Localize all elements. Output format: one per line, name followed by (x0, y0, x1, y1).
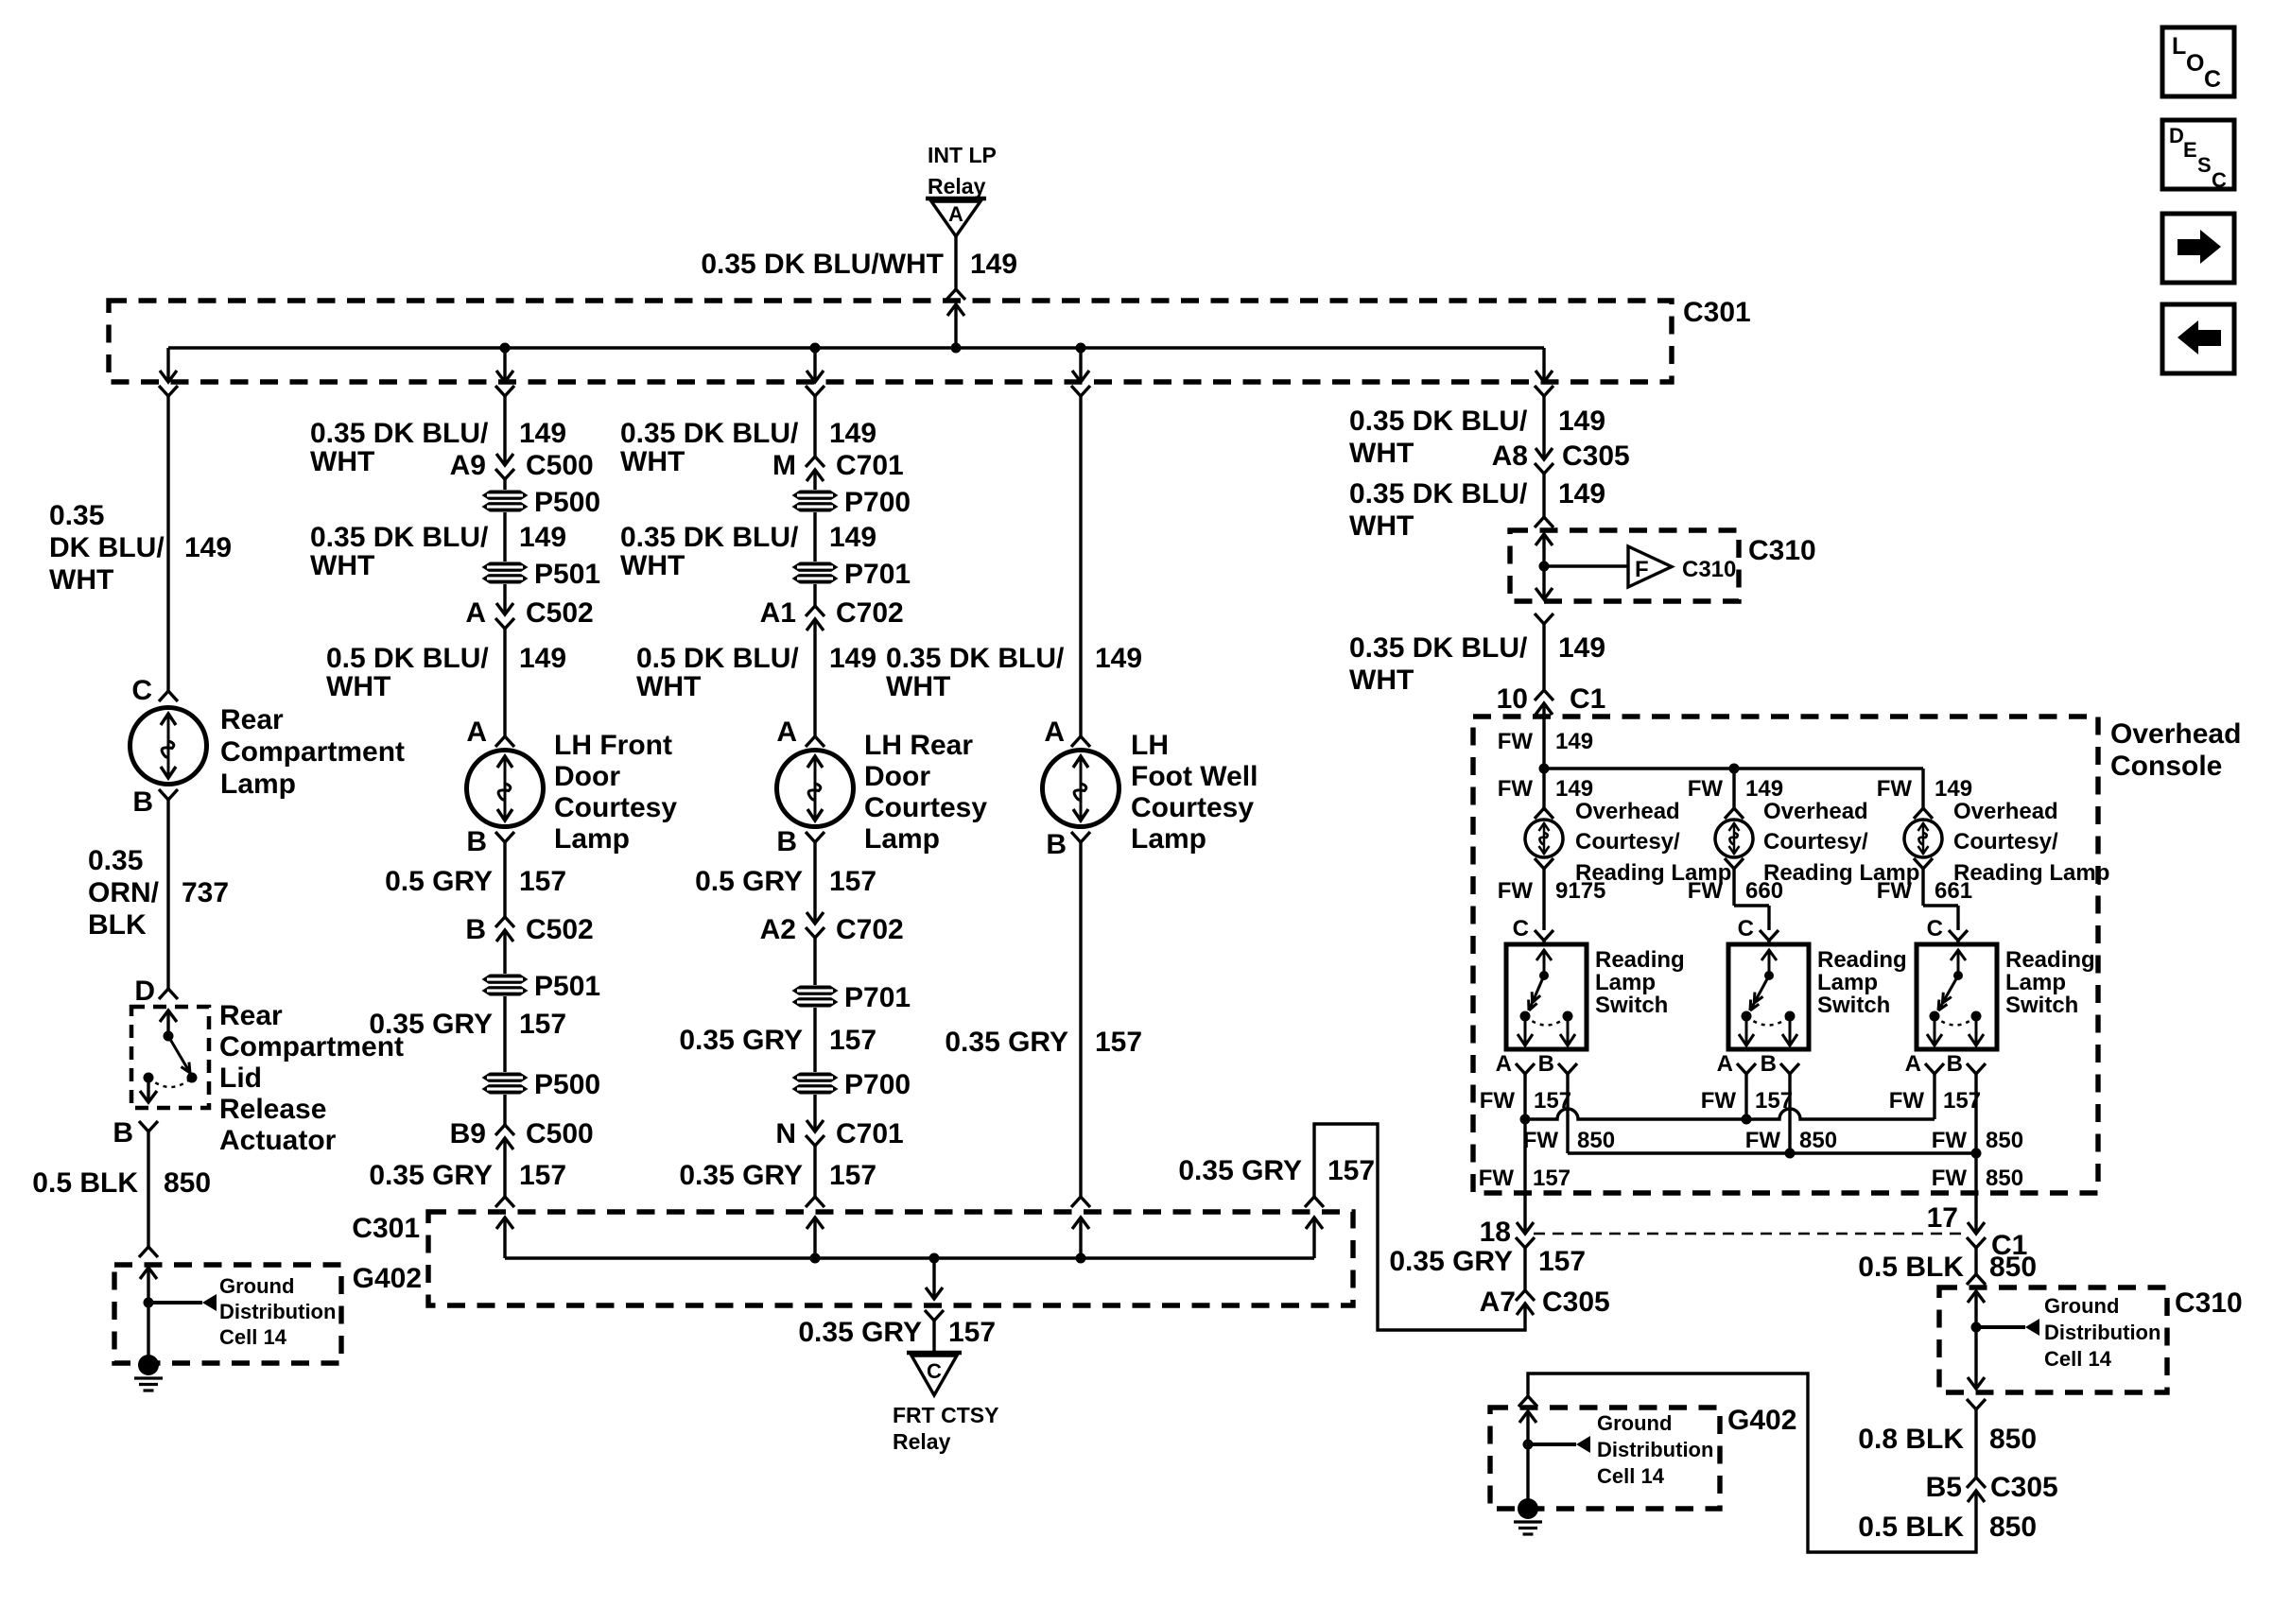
svg-text:Door: Door (864, 761, 930, 792)
svg-text:0.35 DK BLU/: 0.35 DK BLU/ (886, 643, 1065, 674)
svg-text:Lamp: Lamp (864, 823, 940, 855)
svg-text:0.35 GRY: 0.35 GRY (369, 1160, 493, 1191)
svg-text:149: 149 (970, 249, 1017, 280)
svg-text:B: B (113, 1117, 133, 1149)
svg-text:157: 157 (948, 1317, 996, 1348)
svg-text:M: M (772, 450, 796, 481)
svg-text:Reading: Reading (1595, 947, 1685, 973)
svg-text:O: O (2186, 50, 2204, 77)
svg-text:C305: C305 (1990, 1472, 2058, 1503)
svg-text:Overhead: Overhead (1763, 799, 1868, 824)
svg-text:Lamp: Lamp (220, 769, 296, 800)
svg-text:FW: FW (1701, 1088, 1737, 1114)
svg-text:A7: A7 (1480, 1287, 1516, 1318)
svg-text:Switch: Switch (1595, 993, 1668, 1018)
svg-text:0.35 GRY: 0.35 GRY (679, 1160, 803, 1191)
svg-text:Lamp: Lamp (554, 823, 630, 855)
svg-text:850: 850 (1577, 1128, 1615, 1153)
svg-text:B: B (1046, 829, 1067, 860)
svg-text:P500: P500 (534, 487, 600, 518)
svg-text:0.35 GRY: 0.35 GRY (798, 1317, 922, 1348)
svg-text:0.5 BLK: 0.5 BLK (1858, 1512, 1964, 1543)
svg-text:0.35 DK BLU/: 0.35 DK BLU/ (620, 418, 799, 449)
svg-text:FW: FW (1932, 1128, 1968, 1153)
svg-text:A8: A8 (1492, 441, 1528, 472)
svg-text:P501: P501 (534, 971, 600, 1002)
svg-text:Cell 14: Cell 14 (1597, 1464, 1665, 1488)
svg-text:0.35 DK BLU/: 0.35 DK BLU/ (620, 522, 799, 553)
svg-text:G402: G402 (1727, 1405, 1796, 1436)
svg-text:BLK: BLK (88, 909, 147, 941)
svg-text:9175: 9175 (1555, 878, 1605, 904)
svg-text:149: 149 (1745, 776, 1783, 802)
svg-text:C301: C301 (352, 1213, 420, 1244)
svg-text:LH Front: LH Front (554, 730, 672, 761)
svg-text:C301: C301 (1683, 297, 1751, 328)
svg-text:FW: FW (1877, 776, 1913, 802)
svg-text:Courtesy: Courtesy (554, 792, 677, 823)
svg-text:A1: A1 (760, 597, 796, 629)
svg-text:C: C (1738, 916, 1754, 942)
svg-text:149: 149 (829, 522, 876, 553)
svg-text:0.35 GRY: 0.35 GRY (1389, 1246, 1513, 1277)
svg-text:P700: P700 (844, 487, 911, 518)
svg-text:Release: Release (219, 1094, 326, 1125)
svg-text:Relay: Relay (928, 174, 986, 199)
svg-text:A9: A9 (450, 450, 486, 481)
svg-text:Reading: Reading (2005, 947, 2095, 973)
svg-text:0.35: 0.35 (88, 845, 143, 876)
svg-text:C310: C310 (1748, 535, 1816, 566)
svg-text:Ground: Ground (1597, 1411, 1672, 1435)
svg-text:A: A (1496, 1051, 1512, 1077)
svg-text:D: D (2169, 124, 2184, 147)
svg-text:FW: FW (1523, 1128, 1559, 1153)
svg-text:Lid: Lid (219, 1063, 262, 1094)
svg-text:0.35 GRY: 0.35 GRY (945, 1027, 1068, 1058)
svg-text:149: 149 (829, 418, 876, 449)
svg-text:C305: C305 (1562, 441, 1630, 472)
svg-text:B: B (466, 826, 487, 857)
svg-text:A: A (465, 597, 486, 629)
svg-text:0.35 DK BLU/: 0.35 DK BLU/ (310, 522, 489, 553)
svg-text:149: 149 (1095, 643, 1142, 674)
svg-text:Rear: Rear (220, 704, 284, 735)
svg-text:FW: FW (1480, 1088, 1516, 1114)
svg-text:Compartment: Compartment (220, 736, 405, 768)
svg-text:P701: P701 (844, 982, 911, 1013)
svg-text:P700: P700 (844, 1069, 911, 1100)
svg-text:149: 149 (1935, 776, 1972, 802)
svg-text:A: A (1044, 717, 1065, 748)
svg-text:C502: C502 (526, 597, 594, 629)
svg-text:WHT: WHT (620, 550, 685, 581)
svg-text:C310: C310 (1682, 557, 1736, 582)
svg-text:Lamp: Lamp (1131, 823, 1206, 855)
svg-text:P501: P501 (534, 559, 600, 590)
svg-text:L: L (2172, 33, 2186, 60)
svg-text:Courtesy/: Courtesy/ (1763, 829, 1868, 855)
svg-text:18: 18 (1480, 1217, 1511, 1248)
svg-text:149: 149 (519, 522, 566, 553)
svg-text:737: 737 (182, 877, 229, 908)
svg-text:149: 149 (1555, 776, 1593, 802)
svg-text:149: 149 (829, 643, 876, 674)
svg-text:A2: A2 (760, 914, 796, 945)
svg-text:C305: C305 (1542, 1287, 1610, 1318)
svg-text:149: 149 (1555, 729, 1593, 754)
svg-text:Distribution: Distribution (1597, 1438, 1713, 1461)
svg-text:LH: LH (1131, 730, 1169, 761)
svg-text:Cell 14: Cell 14 (219, 1325, 287, 1349)
svg-text:0.35 DK BLU/: 0.35 DK BLU/ (1349, 478, 1528, 510)
svg-text:661: 661 (1935, 878, 1972, 904)
svg-text:WHT: WHT (636, 671, 701, 702)
svg-text:Distribution: Distribution (2044, 1321, 2160, 1344)
svg-text:WHT: WHT (1349, 665, 1414, 696)
svg-text:C310: C310 (2175, 1287, 2243, 1319)
svg-text:WHT: WHT (1349, 438, 1414, 469)
svg-text:0.35 GRY: 0.35 GRY (679, 1025, 803, 1056)
svg-text:Courtesy: Courtesy (1131, 792, 1254, 823)
svg-text:DK BLU/: DK BLU/ (49, 532, 165, 563)
svg-text:FW: FW (1498, 878, 1534, 904)
svg-text:C702: C702 (836, 914, 904, 945)
svg-text:D: D (134, 976, 155, 1007)
svg-text:WHT: WHT (310, 446, 374, 477)
svg-text:S: S (2197, 153, 2212, 177)
svg-text:C: C (2212, 168, 2227, 192)
svg-text:Ground: Ground (2044, 1294, 2119, 1318)
svg-text:FW: FW (1498, 776, 1534, 802)
svg-text:LH Rear: LH Rear (864, 730, 973, 761)
svg-text:Overhead: Overhead (1575, 799, 1680, 824)
svg-text:157: 157 (519, 1009, 566, 1040)
svg-text:C702: C702 (836, 597, 904, 629)
svg-text:850: 850 (164, 1167, 211, 1199)
svg-text:A: A (948, 202, 963, 226)
svg-text:660: 660 (1745, 878, 1783, 904)
svg-text:WHT: WHT (886, 671, 950, 702)
svg-text:Overhead: Overhead (1953, 799, 2058, 824)
svg-text:FW: FW (1688, 776, 1724, 802)
svg-text:157: 157 (1327, 1155, 1375, 1186)
svg-text:157: 157 (829, 1025, 876, 1056)
svg-text:Lamp: Lamp (1595, 970, 1656, 995)
svg-text:C: C (927, 1359, 942, 1383)
svg-text:Cell 14: Cell 14 (2044, 1347, 2112, 1371)
svg-text:Switch: Switch (1817, 993, 1890, 1018)
svg-text:0.5 BLK: 0.5 BLK (1858, 1252, 1964, 1283)
svg-text:E: E (2183, 138, 2197, 162)
svg-text:B: B (132, 786, 153, 818)
svg-text:850: 850 (1989, 1424, 2037, 1455)
svg-text:Rear: Rear (219, 1000, 283, 1031)
svg-text:Console: Console (2110, 751, 2222, 782)
svg-text:B: B (1947, 1051, 1963, 1077)
svg-text:INT LP: INT LP (928, 143, 997, 167)
svg-text:0.5 GRY: 0.5 GRY (695, 866, 803, 897)
svg-text:C701: C701 (836, 1118, 904, 1149)
svg-text:0.35: 0.35 (49, 500, 104, 531)
svg-text:FRT CTSY: FRT CTSY (893, 1403, 998, 1427)
svg-text:Reading Lamp: Reading Lamp (1953, 860, 2109, 886)
svg-text:149: 149 (519, 643, 566, 674)
svg-text:Lamp: Lamp (1817, 970, 1878, 995)
svg-text:Lamp: Lamp (2005, 970, 2066, 995)
svg-text:0.5 DK BLU/: 0.5 DK BLU/ (326, 643, 489, 674)
svg-text:A: A (776, 717, 797, 748)
svg-text:0.35 GRY: 0.35 GRY (369, 1009, 493, 1040)
svg-text:149: 149 (519, 418, 566, 449)
svg-text:Relay: Relay (893, 1429, 951, 1454)
svg-text:B5: B5 (1926, 1472, 1962, 1503)
svg-text:17: 17 (1927, 1202, 1958, 1234)
svg-text:B: B (465, 914, 486, 945)
svg-text:Courtesy: Courtesy (864, 792, 987, 823)
svg-text:C500: C500 (526, 1118, 594, 1149)
svg-text:Overhead: Overhead (2110, 718, 2241, 750)
svg-text:0.5 GRY: 0.5 GRY (385, 866, 493, 897)
svg-text:0.35 GRY: 0.35 GRY (1178, 1155, 1302, 1186)
svg-text:ORN/: ORN/ (88, 877, 160, 908)
svg-text:B9: B9 (450, 1118, 486, 1149)
svg-text:850: 850 (1989, 1252, 2037, 1283)
svg-text:0.5 DK BLU/: 0.5 DK BLU/ (636, 643, 799, 674)
svg-text:Distribution: Distribution (219, 1300, 336, 1323)
svg-text:157: 157 (1538, 1246, 1586, 1277)
svg-text:WHT: WHT (326, 671, 390, 702)
svg-text:P500: P500 (534, 1069, 600, 1100)
svg-text:B: B (1538, 1051, 1554, 1077)
svg-text:157: 157 (1095, 1027, 1142, 1058)
svg-text:P701: P701 (844, 559, 911, 590)
svg-text:C: C (1513, 916, 1529, 942)
svg-text:157: 157 (1533, 1166, 1570, 1191)
svg-text:FW: FW (1498, 729, 1534, 754)
svg-text:157: 157 (829, 1160, 876, 1191)
svg-text:157: 157 (829, 866, 876, 897)
svg-text:A: A (466, 717, 487, 748)
svg-text:0.35 DK BLU/: 0.35 DK BLU/ (1349, 632, 1528, 664)
svg-text:WHT: WHT (49, 564, 113, 596)
svg-text:Courtesy/: Courtesy/ (1575, 829, 1680, 855)
svg-text:G402: G402 (353, 1263, 422, 1294)
svg-text:Switch: Switch (2005, 993, 2078, 1018)
svg-text:B: B (776, 826, 797, 857)
svg-text:C: C (1927, 916, 1943, 942)
svg-text:850: 850 (1986, 1128, 2023, 1153)
svg-text:157: 157 (519, 866, 566, 897)
svg-text:FW: FW (1688, 878, 1724, 904)
svg-text:N: N (775, 1118, 796, 1149)
svg-text:0.35 DK BLU/WHT: 0.35 DK BLU/WHT (701, 249, 944, 280)
svg-text:C: C (131, 675, 152, 706)
svg-text:Reading: Reading (1817, 947, 1907, 973)
svg-text:149: 149 (1558, 478, 1605, 510)
svg-text:FW: FW (1889, 1088, 1925, 1114)
svg-text:B: B (1761, 1051, 1777, 1077)
svg-text:WHT: WHT (620, 446, 685, 477)
svg-text:F: F (1635, 557, 1649, 582)
svg-text:C701: C701 (836, 450, 904, 481)
svg-text:C500: C500 (526, 450, 594, 481)
svg-text:C502: C502 (526, 914, 594, 945)
svg-text:0.5 BLK: 0.5 BLK (32, 1167, 138, 1199)
svg-text:C: C (2204, 66, 2221, 93)
svg-text:149: 149 (1558, 406, 1605, 437)
svg-text:0.35 DK BLU/: 0.35 DK BLU/ (310, 418, 489, 449)
svg-text:FW: FW (1877, 878, 1913, 904)
svg-text:WHT: WHT (310, 550, 374, 581)
svg-text:149: 149 (184, 532, 232, 563)
svg-text:FW: FW (1479, 1166, 1515, 1191)
svg-text:FW: FW (1745, 1128, 1781, 1153)
svg-text:Actuator: Actuator (219, 1125, 337, 1156)
svg-text:850: 850 (1989, 1512, 2037, 1543)
svg-text:Foot Well: Foot Well (1131, 761, 1258, 792)
svg-text:Ground: Ground (219, 1274, 294, 1298)
svg-text:C1: C1 (1570, 683, 1605, 715)
svg-text:FW: FW (1932, 1166, 1968, 1191)
svg-text:0.35 DK BLU/: 0.35 DK BLU/ (1349, 406, 1528, 437)
svg-text:850: 850 (1799, 1128, 1837, 1153)
svg-text:Courtesy/: Courtesy/ (1953, 829, 2058, 855)
svg-text:A: A (1905, 1051, 1921, 1077)
svg-text:WHT: WHT (1349, 510, 1414, 542)
svg-text:850: 850 (1986, 1166, 2023, 1191)
svg-text:Door: Door (554, 761, 620, 792)
svg-text:A: A (1717, 1051, 1733, 1077)
svg-text:10: 10 (1497, 683, 1528, 715)
svg-text:149: 149 (1558, 632, 1605, 664)
svg-text:0.8 BLK: 0.8 BLK (1858, 1424, 1964, 1455)
svg-text:157: 157 (519, 1160, 566, 1191)
